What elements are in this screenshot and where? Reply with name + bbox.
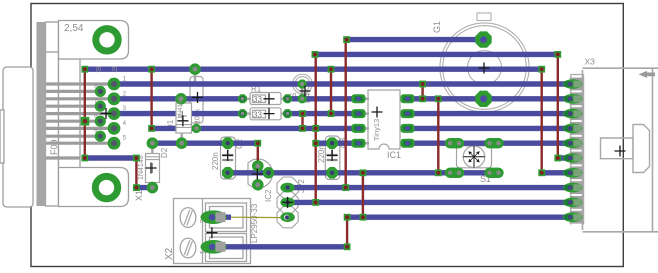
svg-text:IC2: IC2	[264, 189, 273, 202]
svg-text:220n: 220n	[211, 152, 220, 170]
X2 screws	[180, 208, 196, 258]
wire row2	[85, 66, 542, 71]
svg-text:9: 9	[94, 127, 98, 134]
JP2 pad octagon outlines	[277, 177, 298, 228]
R2 resistor silkscreen body	[190, 77, 203, 124]
wire red x315.7	[315, 54, 317, 202]
wire red x347.1	[346, 217, 348, 247]
via (362.9,172.8)	[360, 169, 367, 176]
svg-text:X1: X1	[134, 190, 144, 201]
C2 pads	[222, 137, 234, 149]
wire row6	[152, 126, 359, 131]
svg-text:G1: G1	[432, 21, 442, 33]
via (557.8,158)	[554, 155, 561, 162]
connector X1 metal bar	[37, 22, 47, 206]
vias	[81, 36, 561, 250]
via (347.1,217.2)	[344, 214, 351, 221]
IC1 ATtiny silkscreen body	[368, 90, 400, 149]
wire row11	[288, 200, 571, 205]
capacitor symbols	[222, 155, 337, 160]
wire red x557.8	[557, 54, 559, 158]
svg-text:8: 8	[94, 113, 98, 120]
wire red x303	[301, 114, 303, 129]
R2 pads	[189, 63, 201, 133]
R4 pad with circle	[301, 88, 304, 95]
via (151.6,69.2)	[148, 66, 155, 73]
IC2 LP2950 silkscreen	[248, 159, 273, 188]
D1 diode silkscreen body	[176, 103, 192, 133]
component leads vertical	[152, 69, 196, 187]
wire red x362.9	[362, 173, 364, 217]
IC1 pads	[352, 94, 415, 147]
via (84.8,158)	[81, 155, 88, 162]
wire red x136.4	[135, 158, 137, 188]
S1 pushbutton silkscreen	[457, 146, 492, 168]
wire row9	[228, 170, 494, 175]
via (302.5,113.6)	[299, 110, 306, 117]
D2 diode silkscreen body	[146, 154, 160, 183]
svg-text:2: 2	[123, 90, 127, 97]
X3 arrow mark	[639, 71, 656, 78]
R3 resistor silkscreen body	[250, 108, 281, 120]
wire red x257.8	[257, 143, 259, 166]
wire red x422.6	[421, 84, 423, 99]
wire red x541.7	[541, 69, 543, 173]
via (302.5,128.4)	[299, 125, 306, 132]
svg-text:X2: X2	[164, 247, 175, 260]
D-sub pads right column (pins 1-5)	[108, 78, 121, 150]
svg-text:D2: D2	[160, 147, 169, 158]
blue traces bottom layer	[85, 40, 571, 247]
via (314.9,54.4)	[312, 51, 319, 58]
origin crosses	[101, 108, 112, 119]
C2 capacitor silkscreen	[221, 137, 236, 179]
red traces top layer	[85, 40, 558, 247]
S1 pads	[445, 138, 504, 178]
X1 square pad on lead	[81, 117, 90, 126]
via (315.7,128.4)	[312, 125, 319, 132]
via (331,69.2)	[328, 66, 335, 73]
C3 capacitor silkscreen	[325, 136, 340, 180]
G1 pads	[475, 31, 491, 47]
via (136.4,158)	[133, 155, 140, 162]
svg-text:(0: (0	[96, 67, 102, 73]
via (438.3,172.8)	[435, 169, 442, 176]
mounting hole rings	[95, 29, 118, 199]
R1 R3 leads	[243, 99, 288, 114]
svg-text:LP2950-33: LP2950-33	[250, 203, 259, 243]
wire red x85.8	[84, 69, 86, 158]
via (422.6,84)	[419, 81, 426, 88]
wire red x331	[330, 69, 332, 113]
C3 pads	[326, 137, 338, 149]
via (346.6,39.6)	[343, 36, 350, 43]
R1 pads	[238, 94, 292, 118]
X3 pads	[563, 75, 584, 225]
D-sub pads left column (pins 6-9)	[95, 86, 106, 142]
via (331,113.6)	[328, 110, 335, 117]
via (422.6,98.8)	[419, 95, 426, 102]
JP2 pads	[280, 183, 294, 193]
via (438.3,98.8)	[435, 95, 442, 102]
D-sub pin leads	[46, 84, 114, 158]
svg-text:7: 7	[94, 98, 98, 105]
svg-text:220n: 220n	[317, 145, 326, 163]
via (315.7,202.4)	[312, 199, 319, 206]
pin number digits	[94, 76, 127, 142]
svg-text:X3: X3	[585, 57, 596, 67]
via (315.7,143.2)	[312, 140, 319, 147]
svg-text:IC1: IC1	[387, 150, 401, 160]
G1 battery holder silkscreen	[440, 13, 529, 112]
wire row14	[214, 244, 348, 249]
svg-text:6: 6	[94, 83, 98, 90]
via (557.8,54.4)	[554, 51, 561, 58]
wire row3	[114, 81, 571, 86]
via (541.7,69.2)	[538, 66, 545, 73]
X3 handle	[601, 125, 650, 173]
X2 pads	[201, 210, 227, 253]
D1 pads	[175, 93, 187, 149]
connector X3 silkscreen body	[583, 68, 658, 232]
wire row12	[214, 214, 232, 219]
S1 cross with diagonals	[469, 152, 479, 162]
via (541.7,172.8)	[538, 169, 545, 176]
wire row10	[136, 185, 152, 190]
wire red x438.3	[437, 99, 439, 173]
svg-text:33: 33	[253, 110, 262, 119]
C2 C3 center leads	[228, 143, 332, 173]
svg-text:5: 5	[123, 135, 127, 142]
R1 resistor silkscreen body	[250, 93, 281, 105]
svg-text:3: 3	[123, 105, 127, 112]
via (362.9,217.2)	[360, 214, 367, 221]
R4 standing resistor silkscreen circle	[293, 74, 313, 94]
svg-text:0): 0)	[112, 67, 117, 73]
via (257.8,143.2)	[254, 140, 261, 147]
wire red x151.6	[150, 69, 152, 128]
airwire X2-2 to JP2-3	[231, 216, 288, 218]
via (345.7,187.6)	[342, 184, 349, 191]
IC1 pin leads	[359, 99, 408, 143]
IC2 pads	[252, 160, 274, 190]
wire row8	[85, 155, 137, 160]
svg-text:1: 1	[123, 76, 127, 83]
svg-text:2,54: 2,54	[64, 23, 84, 34]
svg-text:4: 4	[123, 120, 127, 127]
connector X1 D-sub F09 silkscreen body	[0, 21, 129, 208]
wire row4	[114, 96, 243, 101]
via (84.8,69.2)	[81, 66, 88, 73]
via (347.1,246.8)	[344, 243, 351, 250]
wire red x345.7	[345, 40, 347, 188]
wire row5	[114, 111, 243, 116]
X2 screw terminal silkscreen	[174, 199, 251, 264]
wire row1	[315, 52, 558, 57]
wire row7	[152, 140, 257, 145]
wire row0	[346, 37, 484, 42]
via (151.6,128.4)	[148, 125, 155, 132]
via (136.4,187.6)	[133, 184, 140, 191]
svg-text:Tiny13: Tiny13	[372, 119, 381, 141]
D2 pads	[147, 137, 159, 193]
diode symbols inside D1 D2	[148, 111, 187, 173]
svg-text:33: 33	[253, 95, 262, 104]
